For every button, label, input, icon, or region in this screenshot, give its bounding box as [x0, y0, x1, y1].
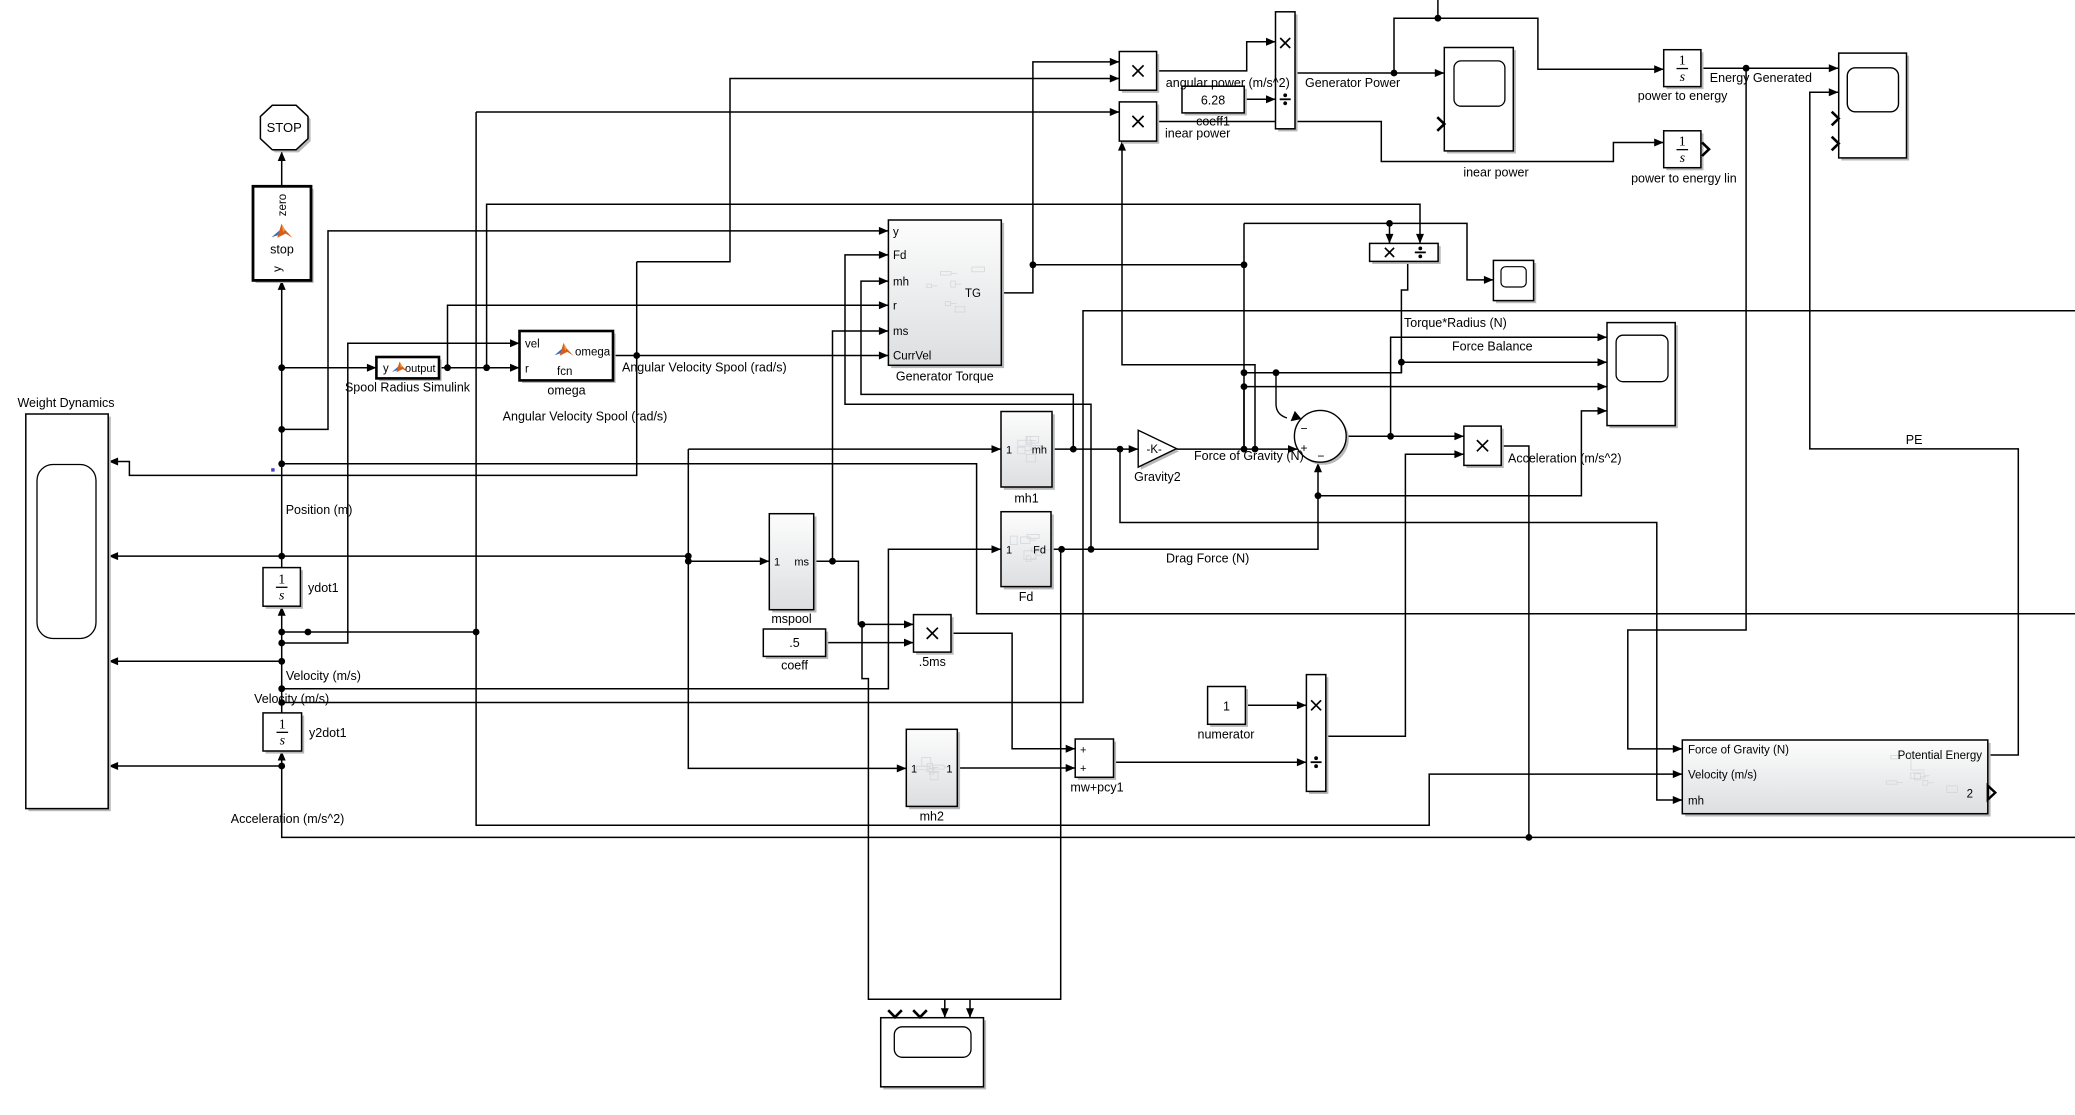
svg-text:s: s [279, 589, 285, 604]
svg-text:Spool Radius Simulink: Spool Radius Simulink [345, 381, 471, 395]
svg-text:inear power: inear power [1463, 166, 1528, 180]
svg-text:.5: .5 [789, 636, 799, 650]
svg-text:-K-: -K- [1147, 444, 1163, 456]
svg-text:r: r [893, 300, 897, 312]
svg-text:coeff: coeff [781, 659, 808, 673]
svg-text:1: 1 [1223, 699, 1230, 713]
svg-text:Generator Power: Generator Power [1305, 76, 1400, 90]
svg-text:mh: mh [1688, 796, 1704, 808]
svg-text:Velocity (m/s): Velocity (m/s) [254, 692, 329, 706]
svg-text:Force Balance: Force Balance [1452, 340, 1533, 354]
svg-text:inear power: inear power [1165, 127, 1230, 141]
svg-text:power to energy: power to energy [1638, 89, 1728, 103]
svg-text:Weight Dynamics: Weight Dynamics [17, 396, 114, 410]
svg-text:output: output [405, 363, 436, 375]
svg-text:omega: omega [547, 384, 585, 398]
svg-text:mh: mh [1032, 444, 1047, 456]
svg-text:Position (m): Position (m) [286, 503, 353, 517]
svg-text:Velocity (m/s): Velocity (m/s) [286, 669, 361, 683]
svg-text:omega: omega [575, 347, 611, 359]
svg-text:Energy Generated: Energy Generated [1710, 71, 1812, 85]
svg-text:1: 1 [279, 717, 286, 732]
svg-text:PE: PE [1906, 433, 1923, 447]
svg-text:s: s [1680, 151, 1686, 166]
svg-text:1: 1 [774, 557, 780, 569]
svg-text:power to energy lin: power to energy lin [1631, 172, 1737, 186]
svg-text:Generator Torque: Generator Torque [896, 370, 994, 384]
svg-text:Fd: Fd [1019, 590, 1034, 604]
svg-text:−: − [1317, 449, 1324, 463]
svg-text:numerator: numerator [1198, 728, 1255, 742]
svg-text:Velocity (m/s): Velocity (m/s) [1688, 770, 1757, 782]
svg-text:mh1: mh1 [1014, 492, 1038, 506]
svg-text:1: 1 [1006, 545, 1012, 557]
svg-text:y: y [272, 266, 284, 272]
svg-text:s: s [280, 734, 286, 749]
svg-text:Potential Energy: Potential Energy [1898, 750, 1983, 762]
svg-text:2: 2 [1967, 789, 1973, 801]
svg-text:6.28: 6.28 [1201, 94, 1225, 108]
svg-text:mh: mh [893, 276, 909, 288]
svg-text:CurrVel: CurrVel [893, 351, 931, 363]
svg-text:Force of Gravity (N): Force of Gravity (N) [1194, 449, 1304, 463]
svg-text:Acceleration (m/s^2): Acceleration (m/s^2) [1508, 452, 1622, 466]
svg-text:vel: vel [525, 339, 540, 351]
svg-text:TG: TG [965, 288, 981, 300]
svg-text:Force of Gravity (N): Force of Gravity (N) [1688, 745, 1789, 757]
svg-text:1: 1 [1679, 135, 1686, 150]
svg-text:stop: stop [270, 243, 294, 257]
svg-text:−: − [1300, 421, 1307, 435]
svg-text:mspool: mspool [771, 612, 811, 626]
svg-text:Acceleration (m/s^2): Acceleration (m/s^2) [231, 812, 345, 826]
svg-text:zero: zero [277, 194, 289, 216]
svg-text:Angular Velocity Spool (rad/s): Angular Velocity Spool (rad/s) [622, 361, 787, 375]
svg-text:1: 1 [911, 763, 917, 775]
svg-text:.5ms: .5ms [919, 655, 946, 669]
svg-text:1: 1 [1679, 54, 1686, 69]
svg-text:fcn: fcn [557, 366, 572, 378]
svg-text:Drag Force (N): Drag Force (N) [1166, 552, 1249, 566]
svg-text:angular power (m/s^2): angular power (m/s^2) [1166, 76, 1290, 90]
svg-text:Gravity2: Gravity2 [1134, 470, 1181, 484]
svg-text:mw+pcy1: mw+pcy1 [1070, 781, 1123, 795]
svg-text:y: y [383, 363, 389, 375]
svg-text:ydot1: ydot1 [308, 581, 339, 595]
svg-text:ms: ms [893, 326, 909, 338]
svg-text:Angular Velocity Spool (rad/s): Angular Velocity Spool (rad/s) [503, 410, 668, 424]
svg-text:Fd: Fd [893, 250, 906, 262]
svg-text:Fd: Fd [1033, 545, 1046, 557]
svg-text:1: 1 [946, 763, 952, 775]
svg-text:1: 1 [278, 572, 285, 587]
svg-text:STOP: STOP [267, 120, 302, 135]
svg-text:+: + [1080, 763, 1086, 775]
svg-text:Torque*Radius (N): Torque*Radius (N) [1404, 316, 1507, 330]
svg-text:ms: ms [794, 557, 809, 569]
svg-text:y: y [893, 226, 899, 238]
svg-text:s: s [1680, 70, 1686, 85]
svg-text:1: 1 [1006, 444, 1012, 456]
svg-text:mh2: mh2 [920, 810, 944, 824]
svg-text:y2dot1: y2dot1 [309, 726, 347, 740]
svg-text:+: + [1080, 744, 1086, 756]
svg-text:r: r [525, 364, 529, 376]
